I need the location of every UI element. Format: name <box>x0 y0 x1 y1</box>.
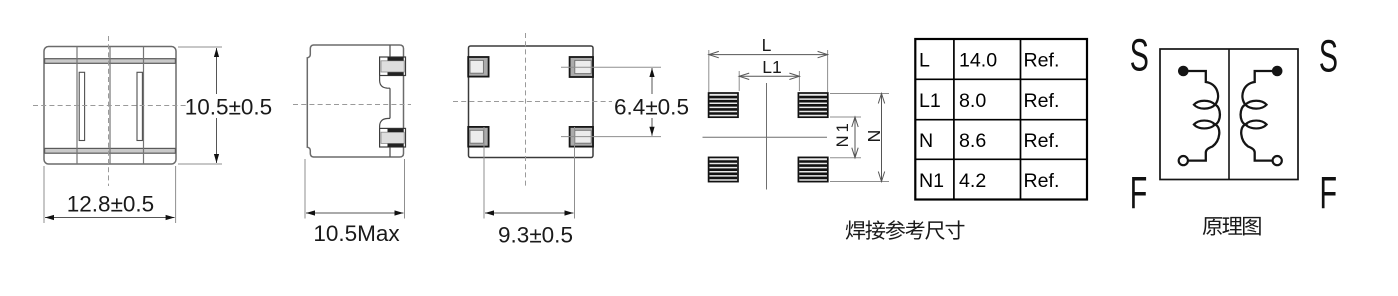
view 3 horizontal centerline <box>453 101 612 103</box>
land pattern caption 焊接参考尺寸 <box>846 220 865 239</box>
svg-text:Ref.: Ref. <box>1024 130 1060 152</box>
land pattern L dim arrows <box>709 51 719 57</box>
svg-text:8.0: 8.0 <box>959 90 986 112</box>
view 1 horizontal centerline <box>33 105 188 107</box>
svg-text:N: N <box>919 130 933 152</box>
schematic middle divider <box>1228 49 1230 180</box>
land pattern L1 dim arrows <box>739 73 749 79</box>
view 3 horizontal pitch dim line <box>485 212 574 214</box>
svg-text:9.3±0.5: 9.3±0.5 <box>498 223 573 248</box>
land pattern N1 dim line <box>854 117 856 158</box>
view 1 left winding slot <box>79 72 84 140</box>
svg-text:L1: L1 <box>919 90 941 112</box>
view 3 pad pitch dim line vertical <box>651 68 653 136</box>
svg-text:8.6: 8.6 <box>959 130 986 152</box>
land pattern top-left pad <box>709 93 738 117</box>
svg-text:L: L <box>762 35 772 55</box>
land pattern bottom-left pad <box>709 157 738 181</box>
schematic caption 原理图 <box>1203 217 1222 235</box>
view 3 top-left pad <box>468 57 488 77</box>
view 2 horizontal centerline <box>293 104 411 106</box>
view 1 width dim line <box>45 217 175 219</box>
view 3 pad pitch dim extension lines horizontal <box>561 67 661 136</box>
svg-text:Ref.: Ref. <box>1024 90 1060 112</box>
svg-text:Ref.: Ref. <box>1024 50 1060 72</box>
svg-text:F: F <box>1319 169 1337 219</box>
land pattern L dim line <box>709 54 828 56</box>
view 1 bottom electrode band <box>45 148 176 153</box>
land pattern L1 dim line <box>739 75 799 77</box>
view 2 side view body outline <box>307 45 403 157</box>
view 1 width dim extension lines <box>44 166 176 223</box>
view 3 top-right pad <box>570 57 593 77</box>
svg-text:F: F <box>1130 169 1148 219</box>
secondary winding coil L2 mirrored with start dot and finish terminal <box>1241 66 1283 166</box>
svg-text:4.2: 4.2 <box>959 170 986 192</box>
view 2 bottom terminal hook <box>380 118 390 128</box>
view 1 vertical centerline <box>108 36 110 186</box>
view 1 front view body outline <box>44 47 176 165</box>
svg-text:14.0: 14.0 <box>959 50 997 72</box>
land pattern N1 dim arrows <box>852 117 858 127</box>
svg-text:L1: L1 <box>762 57 781 77</box>
view 2 width dim arrows <box>306 210 315 215</box>
view 1 height dim text 10.5±0.5 <box>186 94 271 118</box>
land pattern N dim extension lines <box>830 94 889 182</box>
svg-text:N: N <box>864 130 884 143</box>
view 2 bottom terminal tab <box>380 128 406 147</box>
land pattern N dim line <box>881 94 883 182</box>
view 1 height dim arrows <box>214 48 219 57</box>
svg-text:N1: N1 <box>834 120 852 147</box>
land pattern N1 dim extension lines <box>830 117 861 158</box>
view 1 width dim arrows <box>45 215 54 220</box>
view 2 width dim extension lines <box>305 159 405 219</box>
view 3 horizontal pitch dim arrows <box>485 210 494 215</box>
svg-text:Ref.: Ref. <box>1024 170 1060 192</box>
svg-text:6.4±0.5: 6.4±0.5 <box>614 95 689 120</box>
view 3 bottom view body outline <box>469 46 594 158</box>
view 2 flange line segments <box>389 45 391 157</box>
land pattern vertical centerline <box>766 83 768 190</box>
svg-text:S: S <box>1130 31 1149 81</box>
view 3 vertical centerline <box>525 33 527 188</box>
view 1 top electrode band <box>45 59 176 64</box>
svg-text:10.5±0.5: 10.5±0.5 <box>185 95 272 120</box>
svg-text:N1: N1 <box>919 170 944 192</box>
view 3 pad pitch dim text 6.4±0.5 <box>616 94 687 118</box>
land pattern L1 dim extension lines <box>739 71 799 91</box>
view 3 bottom-right pad <box>570 127 593 147</box>
primary winding coil L1 with start dot and finish terminal <box>1178 66 1220 166</box>
schematic box <box>1160 49 1298 180</box>
view 2 top terminal tab <box>380 57 406 76</box>
land pattern horizontal centerline <box>703 136 828 138</box>
land pattern N dim arrows <box>878 94 884 104</box>
view 1 height dim line <box>216 48 218 163</box>
svg-text:10.5Max: 10.5Max <box>313 221 400 246</box>
land pattern bottom-right pad <box>798 157 827 181</box>
land pattern top-right pad <box>798 93 827 117</box>
parameter table grid <box>915 39 1087 200</box>
view 1 vertical parting lines <box>77 47 144 165</box>
view 3 horizontal pitch dim extension lines <box>484 127 575 219</box>
view 3 bottom-left pad <box>468 127 488 147</box>
view 2 top terminal hook <box>380 76 390 89</box>
view 3 pad pitch dim arrows <box>649 68 654 77</box>
view 1 height dim extension lines <box>178 47 222 164</box>
view 2 width dim line <box>306 212 404 214</box>
view 1 right winding slot <box>137 72 142 140</box>
svg-text:S: S <box>1319 32 1338 82</box>
svg-text:L: L <box>919 50 930 72</box>
svg-text:12.8±0.5: 12.8±0.5 <box>67 192 154 217</box>
land pattern L dim extension lines <box>709 50 828 92</box>
